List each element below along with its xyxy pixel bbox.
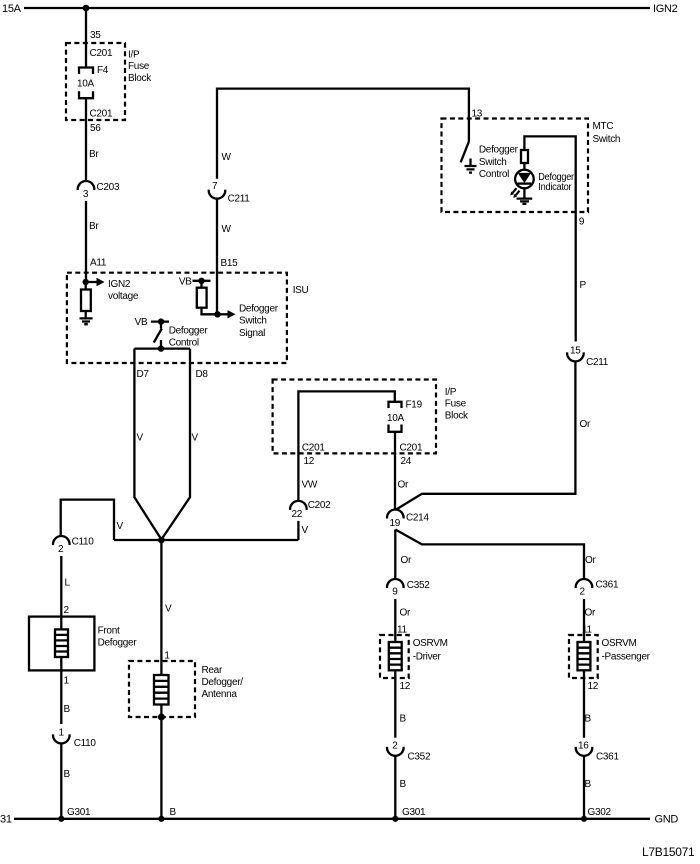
svg-text:2: 2: [64, 605, 70, 616]
wire W up from B15: [217, 199, 238, 315]
svg-text:Br: Br: [89, 149, 99, 160]
wire fuse block 2 internal: [298, 391, 394, 501]
svg-text:56: 56: [90, 123, 101, 134]
svg-text:2: 2: [580, 587, 586, 598]
svg-text:VB: VB: [179, 277, 192, 288]
resistor LED: [521, 150, 528, 170]
wire Or to OSRVM driver: [395, 599, 411, 642]
svg-text:G301: G301: [402, 807, 426, 818]
wire B from front defogger: [61, 657, 70, 724]
wire V from C202: [298, 521, 308, 540]
svg-text:W: W: [222, 152, 232, 163]
Rear Defogger/Antenna box: [129, 661, 243, 717]
resistor VB pull-up: [179, 277, 218, 315]
svg-text:OSRVM: OSRVM: [413, 638, 448, 649]
svg-text:Fuse: Fuse: [128, 61, 150, 72]
svg-text:B: B: [400, 779, 407, 790]
wire Or from F19 to C214: [395, 432, 412, 510]
svg-text:9: 9: [392, 587, 398, 598]
OSRVM-Passenger box: [569, 635, 651, 678]
wire LED branch: [524, 136, 575, 212]
svg-text:C202: C202: [308, 500, 331, 511]
svg-text:Block: Block: [128, 73, 152, 84]
svg-text:12: 12: [400, 681, 411, 692]
svg-text:G301: G301: [67, 807, 91, 818]
wire fuse feed: [86, 8, 101, 68]
node B15 junction: [214, 311, 220, 317]
wire V to rear defogger: [161, 540, 172, 675]
svg-text:2: 2: [58, 544, 64, 555]
svg-text:C110: C110: [74, 738, 97, 749]
svg-text:-Driver: -Driver: [413, 652, 442, 663]
switch Defogger Switch Control: [461, 142, 519, 181]
heater element OSRVM passenger: [578, 642, 591, 670]
heater element rear defogger: [154, 675, 169, 705]
svg-text:W: W: [222, 224, 232, 235]
wire P from MTC pin 9: [576, 212, 587, 342]
heater element front defogger: [55, 629, 68, 657]
svg-text:V: V: [117, 521, 124, 532]
wire D7: [134, 349, 161, 540]
switch Defogger Control: [135, 317, 209, 349]
svg-text:C203: C203: [97, 182, 120, 193]
svg-text:15: 15: [570, 346, 581, 357]
svg-text:VW: VW: [302, 480, 318, 491]
fuse F4 10A: [77, 48, 113, 120]
connector C110 pin 1: [53, 727, 96, 749]
svg-text:IGN2: IGN2: [108, 279, 131, 290]
svg-text:Or: Or: [398, 480, 409, 491]
ground MTC switch: [465, 166, 477, 173]
connector C211 pin 15: [567, 346, 609, 368]
node A11 junction: [83, 279, 89, 285]
wire B to G302: [584, 756, 612, 819]
svg-text:-Passenger: -Passenger: [602, 652, 651, 663]
node IGN2 power rail: [2, 3, 678, 15]
svg-text:C352: C352: [407, 580, 430, 591]
svg-text:Fuse: Fuse: [445, 399, 467, 410]
LED light rays: [510, 188, 519, 198]
svg-text:Switch: Switch: [593, 134, 621, 145]
svg-text:Block: Block: [445, 411, 469, 422]
svg-text:B15: B15: [221, 258, 239, 269]
svg-text:A11: A11: [90, 258, 107, 269]
svg-text:Or: Or: [580, 419, 591, 430]
svg-text:Indicator: Indicator: [538, 182, 572, 193]
svg-text:35: 35: [90, 30, 101, 41]
connector C214 pin 19: [387, 509, 429, 529]
svg-text:Defogger: Defogger: [169, 326, 209, 337]
svg-text:B: B: [585, 779, 592, 790]
node rear defogger ground junction: [158, 714, 165, 721]
wire D8: [161, 349, 208, 540]
svg-text:Defogger: Defogger: [98, 638, 138, 649]
svg-text:V: V: [137, 433, 144, 444]
svg-text:Or: Or: [585, 608, 596, 619]
Front Defogger box: [29, 617, 137, 671]
svg-text:C361: C361: [596, 751, 619, 762]
svg-text:VB: VB: [135, 317, 148, 328]
svg-text:D8: D8: [196, 369, 209, 380]
connector C110 pin 2: [53, 536, 94, 555]
svg-text:B: B: [400, 714, 407, 725]
wire Or down from C214 to driver mirror: [395, 530, 412, 580]
svg-text:Front: Front: [98, 626, 120, 637]
svg-text:C201: C201: [400, 443, 423, 454]
node funnel top: [134, 345, 190, 351]
wire Br to ISU A11: [86, 201, 107, 282]
svg-text:C361: C361: [596, 580, 619, 591]
svg-text:I/P: I/P: [445, 387, 457, 398]
svg-text:7: 7: [212, 181, 218, 192]
I/P Fuse Block box 1: [66, 43, 152, 120]
wire Or to OSRVM passenger: [582, 599, 596, 642]
svg-text:15A: 15A: [2, 3, 22, 15]
svg-text:11: 11: [397, 625, 408, 636]
ISU box: [67, 273, 309, 363]
svg-text:L: L: [65, 578, 71, 589]
svg-text:C201: C201: [90, 109, 113, 120]
IGN2 voltage arrow: [86, 278, 139, 302]
wire VW: [302, 456, 318, 491]
connector C361 pin 2: [576, 579, 619, 598]
svg-text:22: 22: [292, 509, 303, 520]
svg-text:9: 9: [579, 217, 585, 228]
svg-text:V: V: [165, 604, 172, 615]
svg-text:OSRVM: OSRVM: [602, 638, 637, 649]
svg-text:ISU: ISU: [293, 285, 309, 296]
svg-text:Antenna: Antenna: [202, 689, 238, 700]
connector C352 pin 9: [387, 579, 430, 598]
svg-text:C211: C211: [586, 357, 609, 368]
svg-text:11: 11: [582, 625, 593, 636]
svg-text:GND: GND: [655, 814, 679, 826]
wire B from OSRVM driver: [395, 670, 410, 737]
svg-text:V: V: [302, 525, 309, 536]
svg-text:C211: C211: [228, 194, 251, 205]
wire Br: [86, 98, 101, 181]
connector C211 pin 7: [209, 181, 251, 205]
connector C352 pin 2: [387, 741, 431, 763]
svg-text:C352: C352: [408, 751, 431, 762]
svg-text:1: 1: [64, 676, 70, 687]
I/P Fuse Block box 2: [273, 380, 469, 454]
wire B from OSRVM passenger: [584, 670, 599, 737]
svg-text:I/P: I/P: [128, 50, 140, 61]
svg-text:F19: F19: [406, 400, 423, 411]
node ground rail: [0, 814, 678, 826]
svg-text:31: 31: [0, 814, 12, 826]
svg-text:Or: Or: [585, 555, 596, 566]
ground LED: [517, 199, 533, 204]
svg-text:C214: C214: [406, 513, 429, 524]
svg-text:Defogger: Defogger: [239, 304, 279, 315]
svg-text:2: 2: [392, 741, 398, 752]
svg-text:P: P: [580, 280, 587, 291]
svg-text:Or: Or: [400, 608, 411, 619]
connector C361 pin 16: [576, 741, 620, 763]
wire Or branch to passenger mirror: [395, 530, 596, 580]
wire B to G301: [61, 743, 91, 819]
svg-text:10A: 10A: [77, 79, 95, 90]
svg-text:IGN2: IGN2: [653, 3, 678, 15]
svg-text:B: B: [585, 714, 592, 725]
svg-text:B: B: [170, 807, 177, 818]
svg-text:Switch: Switch: [479, 157, 507, 168]
resistor ISU input: [81, 282, 91, 318]
svg-text:Or: Or: [401, 555, 412, 566]
node V junction: [158, 537, 165, 544]
svg-text:Control: Control: [479, 169, 509, 180]
svg-text:G302: G302: [588, 807, 612, 818]
svg-text:B: B: [64, 769, 71, 780]
heater element OSRVM driver: [389, 642, 402, 670]
svg-text:Signal: Signal: [239, 328, 265, 339]
svg-text:L7B15071: L7B15071: [642, 845, 695, 859]
svg-text:C201: C201: [90, 48, 113, 59]
svg-text:C201: C201: [302, 443, 325, 454]
fuse F19 10A: [302, 400, 423, 454]
svg-text:B: B: [64, 704, 71, 715]
MTC Switch box: [442, 119, 621, 213]
svg-text:Defogger/: Defogger/: [202, 677, 244, 688]
wire B to G301 driver: [395, 756, 426, 819]
wire L to Front Defogger: [61, 556, 70, 629]
svg-text:MTC: MTC: [593, 121, 614, 132]
svg-text:voltage: voltage: [108, 291, 139, 302]
svg-text:Control: Control: [169, 338, 199, 349]
svg-text:3: 3: [83, 189, 89, 200]
svg-text:Br: Br: [89, 221, 99, 232]
svg-text:24: 24: [401, 456, 412, 467]
wire Or from C211 to C214: [395, 361, 591, 510]
wire main V bus: [61, 500, 299, 540]
connector C203 pin 3: [78, 181, 120, 200]
wire W to MTC switch: [217, 89, 483, 179]
connector C202 pin 22: [290, 500, 331, 520]
svg-text:12: 12: [588, 681, 599, 692]
ground ISU: [80, 318, 93, 324]
svg-text:16: 16: [578, 741, 589, 752]
svg-text:1: 1: [59, 727, 65, 738]
wire B rear defogger: [161, 705, 176, 820]
LED Defogger Indicator: [515, 170, 575, 198]
svg-text:C110: C110: [72, 537, 95, 548]
svg-text:F4: F4: [97, 65, 109, 76]
svg-text:V: V: [192, 433, 199, 444]
svg-text:Switch: Switch: [239, 316, 267, 327]
svg-text:19: 19: [390, 518, 401, 529]
svg-text:12: 12: [304, 456, 315, 467]
svg-text:Rear: Rear: [202, 665, 223, 676]
svg-text:1: 1: [164, 651, 170, 662]
Defogger Switch Signal arrow: [218, 304, 279, 340]
OSRVM-Driver box: [380, 635, 448, 678]
svg-text:Defogger: Defogger: [479, 145, 519, 156]
svg-text:D7: D7: [137, 369, 150, 380]
svg-text:10A: 10A: [387, 413, 405, 424]
